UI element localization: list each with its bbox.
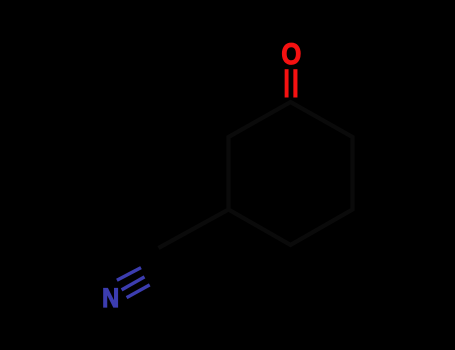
cyclohexane ring: [229, 102, 353, 245]
svg-text:O: O: [281, 37, 301, 70]
bond ring-C to nitrile C: [159, 210, 229, 249]
svg-text:N: N: [102, 284, 119, 314]
carbonyl double bond C=O: [285, 69, 289, 97]
nitrile triple bond: [117, 268, 141, 281]
